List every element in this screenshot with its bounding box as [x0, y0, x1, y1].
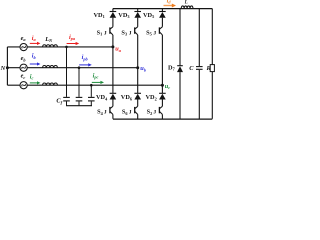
- current arrow i_a: [30, 42, 41, 45]
- svg-text:ec: ec: [21, 73, 26, 80]
- svg-text:id: id: [167, 0, 172, 5]
- svg-text:J: J: [153, 31, 156, 37]
- svg-text:VD1: VD1: [94, 12, 105, 19]
- node cap tap c: [90, 84, 93, 87]
- svg-text:J: J: [129, 110, 132, 116]
- node phase b / leg2: [136, 66, 139, 69]
- svg-text:S6: S6: [122, 109, 129, 116]
- wire leg2 mid: [137, 68, 139, 94]
- svg-text:J: J: [129, 31, 132, 37]
- svg-text:J: J: [104, 110, 107, 116]
- svg-text:VD4: VD4: [96, 94, 108, 101]
- node cap tap b: [78, 66, 81, 69]
- svg-text:ic: ic: [30, 73, 34, 80]
- inductor La: [43, 45, 58, 47]
- source ea: [20, 44, 27, 51]
- svg-text:VD5: VD5: [143, 12, 154, 19]
- svg-text:ea: ea: [21, 35, 27, 42]
- svg-text:N: N: [0, 65, 6, 72]
- node cap tap a: [65, 46, 68, 49]
- current arrow i_c: [30, 81, 41, 84]
- svg-text:ib: ib: [32, 53, 37, 60]
- current arrow i_pc: [92, 81, 104, 84]
- wire bottom dc rail: [113, 118, 212, 120]
- svg-text:ia: ia: [32, 35, 37, 42]
- svg-text:D7: D7: [168, 65, 176, 72]
- transistor S1: [110, 18, 113, 47]
- inductor Lb: [43, 66, 58, 68]
- svg-text:S5: S5: [146, 30, 152, 37]
- svg-text:S1: S1: [97, 30, 103, 37]
- diode VD4: [110, 93, 117, 99]
- svg-text:S3: S3: [121, 30, 127, 37]
- wire neutral bus: [6, 47, 8, 85]
- wire leg1 mid: [112, 47, 114, 93]
- current arrow i_d: [164, 4, 177, 8]
- transistor S3: [135, 18, 138, 68]
- capacitor Cf c: [88, 85, 95, 106]
- wire cap star bar: [66, 105, 92, 107]
- inductor L dc: [181, 6, 193, 8]
- current arrow i_pb: [79, 63, 92, 66]
- wire top dc rail: [113, 8, 212, 10]
- transistor S5: [159, 18, 162, 86]
- inductor Lc: [43, 83, 58, 85]
- node phase a / leg1: [111, 45, 114, 48]
- current arrow i_pa: [67, 42, 80, 45]
- svg-text:R: R: [206, 65, 211, 72]
- node N: [6, 66, 9, 69]
- transistor S2: [159, 100, 162, 119]
- svg-text:S2: S2: [147, 109, 153, 116]
- svg-text:ub: ub: [140, 65, 147, 72]
- transistor S4: [110, 100, 113, 119]
- diode VD6: [134, 93, 141, 99]
- svg-text:J: J: [153, 110, 156, 116]
- diode VD2: [159, 93, 166, 99]
- svg-text:Cf: Cf: [56, 98, 62, 105]
- diode D7 freewheel: [177, 9, 183, 119]
- svg-text:S4: S4: [97, 109, 104, 116]
- current arrow i_b: [30, 62, 41, 65]
- capacitor Cf a: [63, 47, 70, 106]
- svg-text:VD6: VD6: [121, 94, 133, 101]
- diode VD5: [159, 9, 166, 18]
- diode VD1: [110, 9, 117, 18]
- source eb: [20, 64, 27, 71]
- svg-text:ipc: ipc: [93, 72, 99, 79]
- diode VD3: [134, 9, 141, 18]
- svg-text:LN: LN: [44, 36, 53, 43]
- capacitor Cf b: [76, 68, 83, 106]
- resistor R: [210, 9, 214, 119]
- svg-text:VD3: VD3: [118, 12, 129, 19]
- source ec: [20, 82, 27, 89]
- node phase c / leg3: [161, 84, 164, 87]
- capacitor C out: [196, 9, 203, 119]
- svg-text:eb: eb: [21, 55, 27, 62]
- svg-text:ua: ua: [115, 46, 122, 53]
- wire phase a: [7, 46, 113, 48]
- svg-text:J: J: [104, 31, 107, 37]
- wire phase b: [7, 67, 137, 69]
- wire leg3 mid: [161, 85, 163, 93]
- svg-text:ipb: ipb: [82, 54, 89, 61]
- svg-text:L: L: [184, 0, 188, 5]
- wire phase c: [7, 84, 162, 86]
- svg-text:VD2: VD2: [146, 94, 157, 101]
- svg-text:uc: uc: [165, 83, 171, 90]
- svg-text:C: C: [189, 65, 194, 72]
- svg-text:ipa: ipa: [69, 34, 76, 41]
- transistor S6: [135, 100, 138, 119]
